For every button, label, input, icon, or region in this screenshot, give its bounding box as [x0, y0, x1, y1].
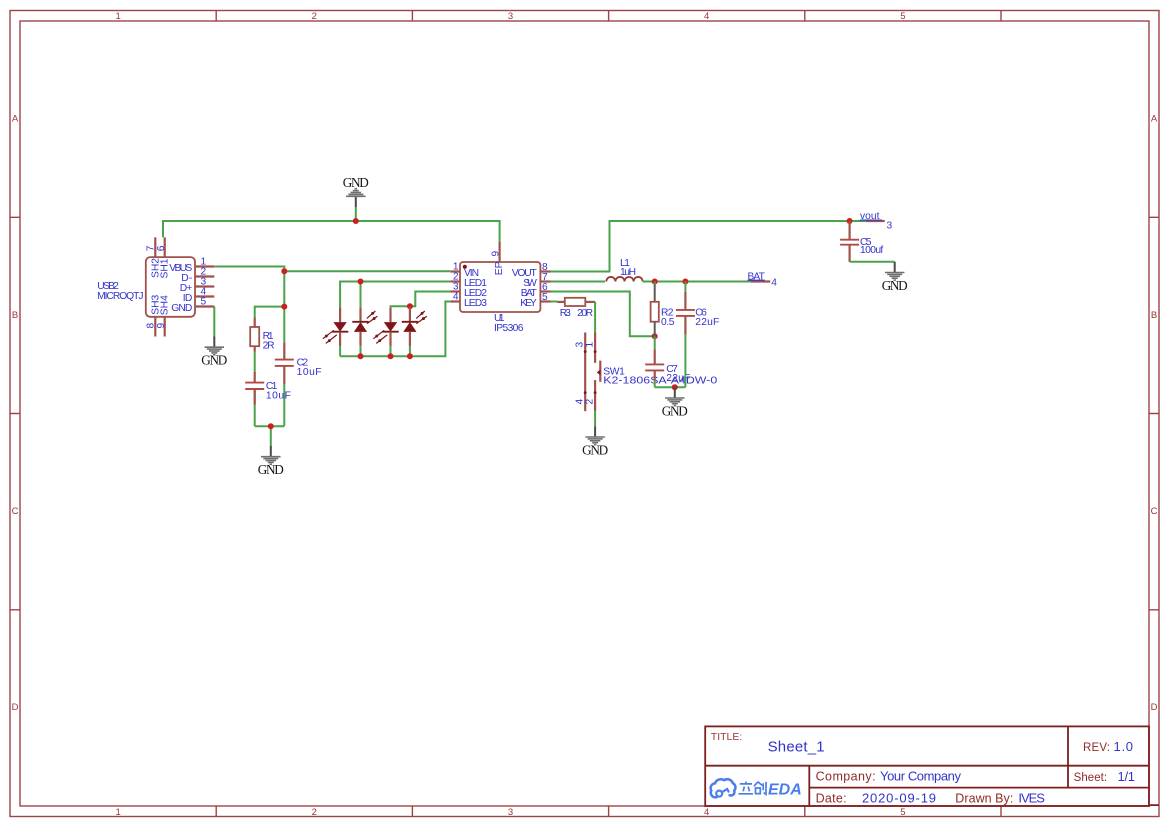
svg-text:22uF: 22uF: [695, 317, 719, 328]
svg-text:6: 6: [156, 245, 167, 251]
svg-text:KEY: KEY: [520, 298, 537, 309]
svg-text:K2-1806SA-A4DW-0: K2-1806SA-A4DW-0: [603, 376, 717, 387]
svg-text:1.0: 1.0: [1114, 739, 1134, 754]
wire L1 to BAT port: [643, 281, 751, 283]
junction LED2 top: [358, 279, 364, 285]
svg-text:10uF: 10uF: [297, 367, 322, 378]
ground flag under USB pin5: [201, 337, 227, 368]
capacitor C1: [245, 372, 264, 405]
svg-text:4: 4: [704, 807, 709, 818]
svg-text:2: 2: [312, 807, 317, 818]
U1 pin 3 LED2: [450, 290, 460, 292]
U1 pin 2 LED1: [450, 280, 460, 282]
capacitor C5: [840, 221, 859, 262]
U1 pin 1 VIN: [450, 270, 460, 272]
junction C6 top: [682, 279, 688, 285]
svg-text:0.5: 0.5: [661, 317, 675, 328]
switch SW1: [584, 333, 601, 412]
wire U1 pin3 to LED3/LED4 tops: [391, 292, 451, 308]
USB2 pin 7 SH2: [154, 237, 156, 257]
row letters right: [1151, 114, 1158, 714]
junction LED4 top: [407, 303, 413, 309]
svg-text:3: 3: [508, 807, 513, 818]
wire U1 pin6 to R2 bottom node: [551, 292, 655, 337]
svg-text:B: B: [12, 310, 18, 321]
svg-text:BAT: BAT: [748, 272, 765, 283]
svg-text:D: D: [1151, 702, 1158, 713]
svg-text:2020-09-19: 2020-09-19: [862, 790, 936, 805]
USB2 pin 2 D-: [195, 275, 214, 277]
USB2 pin names: [150, 258, 192, 316]
U1 pin numbers: [453, 251, 548, 303]
row letters left: [12, 114, 19, 714]
LED2: [352, 307, 377, 346]
svg-text:4: 4: [453, 291, 459, 302]
U1 pin 7 SW: [540, 280, 550, 282]
junction LED4 bottom: [407, 353, 413, 359]
junction top rail GND: [353, 218, 359, 224]
junction R1/C2 branch: [281, 304, 287, 310]
SW1 pin numbers: [575, 342, 596, 405]
wire R3 down to SW1: [594, 302, 596, 333]
wire U1 pin2 to LED1/LED2 tops: [340, 282, 450, 308]
svg-text:B: B: [1151, 310, 1157, 321]
USB2 pin 4 ID: [195, 295, 214, 297]
svg-text:Sheet:: Sheet:: [1074, 772, 1108, 784]
svg-text:IVES: IVES: [1018, 790, 1045, 805]
svg-text:20R: 20R: [577, 308, 593, 319]
wire VBUS: USB pin1 to branch: [214, 267, 284, 307]
svg-text:10uF: 10uF: [266, 391, 291, 402]
wire U1 pin5 to R3: [551, 301, 558, 303]
svg-text:IP5306: IP5306: [494, 323, 524, 334]
svg-text:R3: R3: [560, 308, 571, 319]
inductor L1: [606, 277, 642, 282]
USB2 pin 5 GND: [195, 305, 214, 307]
svg-text:3: 3: [508, 11, 513, 22]
svg-text:TITLE:: TITLE:: [711, 731, 743, 743]
svg-text:5: 5: [542, 292, 548, 303]
wire U1 pin4 to LED bottom rail: [340, 302, 450, 357]
wire USB pin6 to top rail to U1 EP: [163, 221, 500, 242]
ground flag under C7: [662, 387, 688, 418]
LED3: [373, 307, 399, 346]
column numbers top: [115, 11, 905, 22]
svg-text:GND: GND: [343, 175, 369, 190]
U1 pin 9 EP: [499, 242, 501, 262]
svg-text:100uf: 100uf: [860, 245, 883, 256]
net port vout: [860, 211, 893, 231]
svg-text:22uF: 22uF: [666, 373, 690, 384]
connector USB2 MICROQTJ body: [146, 257, 195, 317]
svg-text:5: 5: [900, 807, 905, 818]
LED1: [323, 307, 349, 346]
U1 pin 5 KEY: [540, 300, 550, 302]
title block: [705, 726, 1159, 806]
EasyEDA logo cloud: [711, 779, 736, 797]
junction VBUS to VIN: [281, 268, 287, 274]
svg-text:D: D: [12, 702, 19, 713]
svg-text:SH4: SH4: [160, 295, 171, 315]
junction LED3 bottom: [388, 353, 394, 359]
wire VOUT rail: U1 pin8 up and right to vout port: [551, 221, 866, 272]
svg-text:9: 9: [490, 251, 501, 257]
resistor R3: [557, 298, 595, 306]
junction LED2 bottom: [358, 353, 364, 359]
EasyEDA logo text 立创EDA: [738, 782, 766, 795]
svg-text:EDA: EDA: [768, 782, 802, 799]
svg-text:1/1: 1/1: [1118, 769, 1136, 784]
svg-text:1: 1: [115, 807, 120, 818]
svg-text:Your Company: Your Company: [880, 769, 962, 784]
column numbers bottom: [115, 807, 905, 818]
svg-text:1: 1: [584, 342, 595, 348]
ground flag under C1/C2: [258, 446, 284, 477]
capacitor C2: [275, 342, 294, 384]
wire top GND stub: [355, 207, 357, 221]
USB2 pin numbers: [145, 245, 206, 328]
junction R2 bottom: [652, 333, 658, 339]
junction R2 top: [652, 279, 658, 285]
U1 pin 8 VOUT: [540, 270, 550, 272]
svg-text:A: A: [1151, 114, 1158, 125]
resistor R1: [250, 318, 259, 352]
svg-text:GND: GND: [171, 303, 192, 314]
wire branch to U1 pin1 VIN: [284, 270, 450, 272]
svg-text:2R: 2R: [263, 341, 275, 352]
wire branch left to R1: [255, 307, 285, 318]
ground flag under C5: [882, 262, 908, 293]
ground flag under SW1: [582, 426, 608, 457]
USB2 pin 9 SH4: [164, 317, 166, 337]
wire C1 down to bottom node: [254, 389, 256, 426]
wire C5 to GND: [850, 261, 895, 263]
wire bottom node to GND: [255, 426, 285, 446]
svg-text:7: 7: [145, 245, 156, 251]
wire R1 to C1: [254, 352, 256, 372]
wire LED bottom leads: [340, 346, 410, 356]
capacitor C7: [645, 336, 664, 387]
USB2 pin 6 SH1: [164, 237, 166, 257]
ground flag top: [343, 175, 369, 207]
svg-text:Date:: Date:: [816, 791, 847, 805]
wire USB pin5 down to GND: [213, 307, 215, 337]
svg-text:C: C: [12, 506, 19, 517]
svg-text:LED3: LED3: [464, 298, 487, 309]
svg-text:5: 5: [201, 296, 207, 307]
svg-text:1uH: 1uH: [620, 267, 636, 278]
svg-text:MICROQTJ: MICROQTJ: [97, 291, 143, 302]
LED4: [402, 307, 427, 346]
wire C2 down to bottom node: [283, 384, 285, 426]
svg-text:8: 8: [145, 323, 156, 329]
svg-text:Drawn By:: Drawn By:: [955, 791, 1013, 805]
junction bottom node GND: [268, 423, 274, 429]
wire C7/C6 bottom to GND: [655, 386, 686, 388]
junction bottom GND node: [672, 384, 678, 390]
svg-text:C: C: [1151, 506, 1158, 517]
U1 pin 4 LED3: [450, 300, 460, 302]
wire SW1 to GND: [594, 411, 596, 426]
svg-text:Sheet_1: Sheet_1: [768, 739, 825, 756]
U1 pin names: [464, 261, 538, 308]
U1 pin 6 BAT: [540, 290, 550, 292]
svg-text:Company:: Company:: [816, 770, 876, 784]
svg-text:2: 2: [312, 11, 317, 22]
wire U1 pin7 to L1: [551, 281, 606, 283]
svg-text:A: A: [12, 114, 19, 125]
svg-text:3: 3: [887, 221, 893, 232]
net port BAT: [748, 272, 778, 289]
svg-text:5: 5: [900, 11, 905, 22]
USB2 pin 1 VBUS: [195, 265, 214, 267]
resistor R2: [651, 282, 659, 337]
svg-text:2: 2: [584, 399, 595, 405]
svg-text:EP: EP: [494, 261, 505, 275]
svg-text:1: 1: [115, 11, 120, 22]
svg-text:4: 4: [771, 277, 777, 288]
svg-text:REV:: REV:: [1083, 742, 1110, 754]
USB2 pin 3 D+: [195, 285, 214, 287]
op-amp U1 IP5306 body: [460, 262, 540, 312]
svg-text:4: 4: [704, 11, 709, 22]
svg-text:9: 9: [156, 323, 167, 329]
U1 pin1 mark: [463, 265, 467, 269]
junction vout C5: [847, 218, 853, 224]
capacitor C6: [676, 282, 695, 388]
wire branch down to C2: [283, 307, 285, 343]
USB2 pin 8 SH3: [154, 317, 156, 337]
